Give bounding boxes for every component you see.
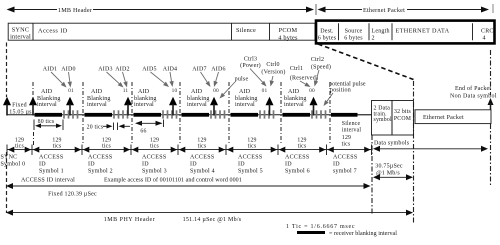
- svg-text:Non Data symbol: Non Data symbol: [450, 94, 497, 100]
- boundary tick x=278: [277, 145, 279, 156]
- svg-text:ID: ID: [285, 162, 292, 168]
- leader arrows AID5 AID4: [151, 72, 165, 83]
- svg-text:Blanking: Blanking: [37, 96, 61, 102]
- svg-text:Example access ID of 00101101: Example access ID of 00101101 and contro…: [104, 177, 242, 184]
- svg-text:AID: AID: [138, 89, 150, 95]
- svg-text:AID3: AID3: [98, 67, 112, 73]
- boundary tick x=226: [225, 145, 227, 156]
- svg-text:tics: tics: [298, 144, 307, 150]
- cell divider Silence|PCOM: [269, 23, 271, 40]
- svg-text:Access ID: Access ID: [38, 28, 68, 35]
- boundary tick x=7: [6, 145, 8, 156]
- svg-text:4 bytes: 4 bytes: [278, 34, 298, 41]
- divider Dest|Source: [338, 23, 340, 40]
- pulse arrow at x=128 11: [124, 97, 132, 106]
- leader arrows Ctrl1 Ctrl2: [300, 81, 306, 84]
- boundary tick x=178: [177, 145, 179, 156]
- pulse arrow at x=214 00: [210, 97, 218, 106]
- svg-text:129: 129: [297, 138, 306, 144]
- duration arrowheads 278-326.5: [319, 147, 326, 153]
- svg-text:Silence: Silence: [342, 121, 361, 127]
- svg-text:AID: AID: [41, 89, 53, 95]
- symbol duration arrow row: [7, 149, 372, 151]
- 2 Data train symbols box: [372, 101, 393, 136]
- svg-text:Ctrl3: Ctrl3: [244, 57, 257, 63]
- timeline baseline: [7, 114, 372, 116]
- svg-text:ID: ID: [333, 162, 340, 168]
- svg-text:1 Tic = 1/6.6667 msec: 1 Tic = 1/6.6667 msec: [286, 224, 355, 230]
- svg-text:AID2: AID2: [115, 67, 129, 73]
- boundary tick x=131: [130, 145, 132, 156]
- svg-text:129: 129: [342, 135, 351, 141]
- svg-text:blanking: blanking: [187, 96, 210, 102]
- svg-text:blanking: blanking: [134, 96, 157, 102]
- svg-text:30.75µSec: 30.75µSec: [375, 164, 403, 170]
- svg-text:blanking: blanking: [235, 96, 258, 102]
- pulse arrow at x=269.5 01: [266, 97, 274, 106]
- svg-text:CRC: CRC: [481, 29, 494, 35]
- svg-text:Dest.: Dest.: [320, 29, 334, 35]
- svg-text:Ethernet Packet: Ethernet Packet: [363, 7, 405, 14]
- svg-text:tics: tics: [198, 144, 207, 150]
- svg-text:32 bits: 32 bits: [394, 109, 412, 115]
- svg-text:(Version): (Version): [261, 69, 285, 76]
- svg-text:ACCESS: ACCESS: [285, 155, 309, 161]
- svg-text:interval: interval: [235, 102, 255, 108]
- svg-text:ACCESS: ACCESS: [238, 155, 262, 161]
- pulse arrow at x=313.5 00: [310, 97, 318, 106]
- svg-text:129: 129: [197, 138, 206, 144]
- duration arrowheads 226-278: [271, 147, 278, 153]
- 1MB PHY Header arrow: [6, 210, 13, 216]
- svg-text:AID: AID: [239, 89, 251, 95]
- Ethernet Packet span arrow: [316, 4, 493, 15]
- divider Source|Length: [368, 23, 370, 40]
- receiver blanking bar symbol 7: [331, 113, 358, 117]
- svg-text:End of Packet: End of Packet: [455, 85, 491, 92]
- svg-text:ID: ID: [39, 162, 46, 168]
- svg-text:AID7: AID7: [192, 67, 206, 73]
- dashed expansion diagonal: [318, 44, 414, 80]
- svg-text:Data symbols: Data symbols: [374, 141, 410, 147]
- svg-text:SYNC: SYNC: [12, 27, 30, 34]
- svg-text:interval: interval: [187, 102, 207, 108]
- dash-dot vertical x=372 below boxes: [371, 135, 373, 214]
- svg-text:Symbol 0: Symbol 0: [1, 162, 26, 168]
- svg-text:6 bytes: 6 bytes: [318, 36, 337, 42]
- svg-text:(Speed): (Speed): [311, 64, 331, 71]
- dash-dot vertical at PCOM/packet boundary x=413.5: [413, 81, 415, 224]
- boundary tick x=32: [31, 145, 33, 156]
- svg-text:80 tics: 80 tics: [38, 119, 55, 125]
- svg-text:tics: tics: [248, 144, 257, 150]
- bold Ethernet packet box: [316, 21, 495, 44]
- svg-text:= receiver blanking interval: = receiver blanking interval: [329, 231, 397, 237]
- svg-text:AID5: AID5: [142, 67, 156, 73]
- svg-text:129: 129: [102, 138, 111, 144]
- svg-text:interval: interval: [10, 34, 31, 41]
- leader arrows AID1 AID0: [51, 72, 62, 83]
- svg-text:interval: interval: [284, 102, 304, 108]
- boundary tick x=371.5: [371, 145, 373, 156]
- pulse arrow at x=7: [3, 97, 11, 106]
- receiver blanking bar symbol 2: [85, 113, 113, 117]
- leader arrows Ctrl3 Ctrl0: [250, 69, 263, 83]
- receiver blanking bar symbol 3: [134, 113, 162, 117]
- svg-text:AID6: AID6: [211, 67, 225, 73]
- svg-text:4: 4: [483, 36, 486, 42]
- symbol boundary dash-dot verticals: [32, 82, 34, 98]
- left dashed reference line x=6.5: [6, 43, 8, 98]
- duration arrowheads 7-32: [25, 147, 32, 153]
- duration arrowheads 131-178: [171, 147, 178, 153]
- svg-text:PCOM: PCOM: [394, 116, 411, 122]
- receiver blanking bar symbol 4: [182, 113, 210, 117]
- svg-text:Ctrl2: Ctrl2: [311, 57, 324, 63]
- svg-text:66: 66: [140, 128, 146, 134]
- leader arrow potential pulse position: [327, 93, 333, 101]
- svg-text:ACCESS ID interval: ACCESS ID interval: [21, 178, 75, 184]
- svg-text:01: 01: [262, 88, 268, 94]
- svg-text:10: 10: [172, 88, 178, 94]
- svg-text:tics: tics: [15, 144, 24, 150]
- svg-text:Fixed: Fixed: [12, 103, 27, 109]
- svg-text:blanking: blanking: [284, 96, 307, 102]
- svg-text:tics: tics: [53, 144, 62, 150]
- svg-text:2: 2: [372, 36, 375, 42]
- svg-text:ACCESS: ACCESS: [190, 155, 214, 161]
- svg-text:Fixed 120.39 µSec: Fixed 120.39 µSec: [48, 191, 97, 197]
- duration arrowheads 326.5-371.5: [364, 147, 371, 153]
- svg-text:01: 01: [68, 88, 74, 94]
- receiver blanking bar symbol 5: [231, 113, 259, 117]
- svg-text:interval: interval: [37, 102, 57, 108]
- svg-text:ID: ID: [190, 162, 197, 168]
- potential pulse position ticks: [63, 110, 65, 118]
- svg-text:AID1: AID1: [43, 67, 57, 73]
- svg-text:ACCESS: ACCESS: [142, 155, 166, 161]
- svg-text:151.14 µSec @1 Mb/s: 151.14 µSec @1 Mb/s: [183, 217, 242, 223]
- svg-text:PCOM: PCOM: [279, 27, 298, 34]
- svg-text:Blanking: Blanking: [87, 96, 111, 102]
- svg-text:129: 129: [247, 138, 256, 144]
- svg-text:symbol: symbol: [374, 117, 392, 123]
- duration arrowheads 178-226: [219, 147, 226, 153]
- svg-text:interval: interval: [87, 102, 107, 108]
- svg-text:ID: ID: [238, 162, 245, 168]
- svg-text:Ethernet Packet: Ethernet Packet: [423, 115, 464, 121]
- svg-text:(Power): (Power): [240, 62, 261, 69]
- svg-text:pulse: pulse: [235, 77, 249, 83]
- leader arrows AID7 AID6: [201, 72, 208, 82]
- svg-text:129: 129: [150, 138, 159, 144]
- divider Length|Data: [391, 23, 393, 40]
- receiver blanking bar symbol 6: [283, 113, 311, 117]
- svg-text:ACCESS: ACCESS: [88, 155, 112, 161]
- svg-text:ACCESS: ACCESS: [39, 155, 63, 161]
- svg-text:Symbol 5: Symbol 5: [238, 169, 263, 175]
- svg-text:00: 00: [309, 88, 315, 94]
- Ethernet Packet box: [415, 110, 491, 124]
- pulse arrow at x=33: [29, 97, 37, 106]
- receiver blanking bar symbol 1: [35, 113, 63, 117]
- frame table outline: [8, 23, 315, 40]
- svg-text:Symbol 6: Symbol 6: [285, 169, 310, 175]
- svg-text:Silence: Silence: [236, 27, 256, 34]
- svg-text:00: 00: [213, 88, 219, 94]
- Fixed 120.39 uSec arrow: [6, 183, 13, 189]
- svg-text:Symbol 4: Symbol 4: [190, 169, 215, 175]
- svg-text:Length: Length: [372, 29, 390, 35]
- svg-text:ETHERNET DATA: ETHERNET DATA: [396, 28, 450, 35]
- svg-text:AID4: AID4: [163, 67, 177, 73]
- svg-text:interval: interval: [134, 102, 154, 108]
- svg-text:AID: AID: [91, 89, 103, 95]
- end of packet up arrow: [488, 98, 494, 105]
- svg-text:1MB Header: 1MB Header: [58, 7, 92, 14]
- cell divider SYNC|AccessID: [32, 23, 34, 40]
- svg-text:tics: tics: [102, 144, 111, 150]
- 80 tics measure: [33, 120, 35, 131]
- svg-text:Symbol 3: Symbol 3: [142, 169, 167, 175]
- svg-text:interval: interval: [342, 128, 361, 134]
- svg-text:tics: tics: [342, 142, 351, 148]
- duration arrowheads 32-82: [75, 147, 82, 153]
- svg-text:AID: AID: [191, 89, 203, 95]
- svg-text:129: 129: [52, 138, 61, 144]
- dash-dot vertical at end of packet x=490.5: [490, 50, 492, 95]
- svg-text:ACCESS: ACCESS: [333, 155, 357, 161]
- svg-text:Ctrl1: Ctrl1: [290, 66, 303, 72]
- boundary tick x=326.5: [326, 145, 328, 156]
- svg-text:position: position: [330, 88, 351, 94]
- svg-text:Symbol 1: Symbol 1: [39, 169, 64, 175]
- svg-text:6 bytes: 6 bytes: [344, 36, 363, 42]
- svg-text:Symbol 2: Symbol 2: [88, 169, 113, 175]
- cell divider AccessID|Silence: [231, 23, 233, 40]
- svg-text:AID0: AID0: [61, 67, 75, 73]
- svg-text:tics: tics: [150, 144, 159, 150]
- svg-text:129: 129: [15, 138, 24, 144]
- pulse arrow at x=70 01: [66, 97, 74, 106]
- svg-text:Source: Source: [345, 29, 363, 35]
- divider Data|CRC: [472, 23, 474, 40]
- 32 bits PCOM box: [392, 101, 414, 136]
- svg-text:11: 11: [123, 88, 129, 94]
- leader arrows AID3 AID2: [107, 72, 120, 84]
- svg-text:AID: AID: [288, 89, 300, 95]
- 1MB Header span arrow: [7, 7, 315, 15]
- svg-text:Ctrl0: Ctrl0: [266, 62, 279, 68]
- svg-text:15.05 µs: 15.05 µs: [9, 109, 32, 115]
- leader line pulse: [224, 82, 236, 94]
- 66 tics measure: [135, 121, 142, 126]
- legend blanking bar: [297, 231, 325, 234]
- svg-text:1MB PHY Header: 1MB PHY Header: [104, 217, 155, 223]
- boundary tick x=82: [81, 145, 83, 156]
- svg-text:ID: ID: [142, 162, 149, 168]
- duration arrowheads 82-131: [124, 147, 131, 153]
- svg-text:ID: ID: [88, 162, 95, 168]
- svg-text:SYNC: SYNC: [1, 155, 18, 161]
- svg-text:20 tics: 20 tics: [87, 124, 104, 130]
- pulse arrow at x=173 10: [169, 97, 177, 106]
- svg-text:symbol 7: symbol 7: [333, 169, 357, 175]
